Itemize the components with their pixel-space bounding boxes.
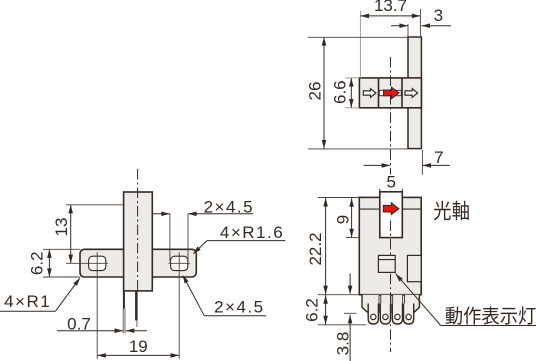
- dim 26 ext bottom: [308, 148, 408, 150]
- svg-text:5: 5: [386, 173, 395, 192]
- side view slot tab: [380, 192, 403, 238]
- pin base block: [362, 295, 419, 312]
- svg-text:19: 19: [129, 337, 148, 356]
- svg-text:9: 9: [333, 215, 352, 224]
- front pin right: [135, 291, 138, 321]
- dim 6.2 ext bottom: [318, 324, 367, 326]
- dim 19: [97, 354, 179, 356]
- svg-text:4×R1: 4×R1: [4, 292, 51, 311]
- dim 6.6 ext top: [345, 77, 359, 79]
- dim 3.8 upper arrow: [349, 274, 351, 294]
- hole center line left / 19 ext: [96, 252, 98, 359]
- pin shoulder circles: [371, 314, 376, 319]
- leader 4xR1: [0, 310, 55, 312]
- front pin left thin lines: [122, 309, 124, 334]
- top view center line: [390, 57, 392, 175]
- front mounting hole right: [171, 256, 188, 270]
- side view body: [359, 197, 421, 294]
- dim 13: [70, 205, 72, 263]
- front view flange: [80, 249, 196, 277]
- svg-text:2×4.5: 2×4.5: [204, 198, 255, 217]
- side view center line lower: [390, 274, 392, 352]
- dim 6.6: [350, 78, 352, 108]
- dim 0.7: [57, 330, 123, 332]
- svg-text:7: 7: [434, 148, 443, 167]
- dim 13 ext: [66, 204, 124, 206]
- side view red optical axis arrow: [383, 203, 399, 215]
- svg-text:13: 13: [52, 218, 71, 237]
- dim 13.7 ext left: [359, 11, 361, 78]
- dim 3 ext: [407, 24, 409, 37]
- hole center line right / 19 ext: [178, 252, 180, 359]
- svg-text:13.7: 13.7: [374, 0, 407, 15]
- label kousiku (optical axis): [434, 201, 451, 221]
- top view bar divider right: [401, 79, 403, 108]
- dim 22.2: [325, 198, 327, 294]
- dim 2x4.5 ext: [169, 214, 171, 262]
- dim 7: [364, 164, 391, 166]
- side notch rectangle: [407, 255, 421, 281]
- front view center line: [137, 169, 139, 291]
- dim 26 ext top: [308, 36, 408, 38]
- svg-text:22.2: 22.2: [306, 232, 325, 265]
- dim 6.2 ext top: [43, 248, 81, 250]
- indicator LED square: [378, 255, 395, 272]
- svg-text:4×R1.6: 4×R1.6: [220, 223, 284, 242]
- top view horizontal bar (13.7mm arm): [359, 78, 421, 108]
- dim 3.8 tick: [344, 312, 356, 314]
- dim 7 ext right: [421, 150, 423, 175]
- dim 13.7: [360, 15, 420, 17]
- dim 22.2 ext top: [318, 197, 360, 199]
- dim 6.2 front: [48, 249, 50, 277]
- dim 22.2 ext bottom: [318, 294, 360, 296]
- svg-text:0.7: 0.7: [67, 315, 91, 334]
- top view vertical strip (3mm plate): [408, 37, 421, 149]
- dim 13.7 ext right: [419, 9, 421, 37]
- svg-text:2×4.5: 2×4.5: [214, 298, 265, 317]
- hole cross horizontal right: [169, 262, 190, 264]
- front pin right thin line: [136, 320, 138, 327]
- top view bar divider left: [378, 79, 380, 108]
- dim 26: [323, 37, 325, 149]
- leader 2x4.5 bottom: [204, 315, 266, 317]
- pin gap slits: [379, 295, 381, 312]
- dim 6.2 ext bottom: [43, 276, 81, 278]
- label dousahyoujitou (operation indicator): [446, 307, 462, 325]
- top view receiver white arrow: [405, 89, 418, 98]
- front pin left: [123, 291, 125, 309]
- top view optical channel: [379, 90, 401, 95]
- side view slot hidden line left: [360, 208, 380, 210]
- dim 6.6 ext bottom: [345, 107, 359, 109]
- dim 3.8: [349, 315, 351, 361]
- dim 2x4.5 top: [152, 213, 170, 215]
- leader for indicator: [396, 274, 441, 326]
- dim 9 ext: [346, 237, 360, 239]
- front view center post: [124, 192, 153, 291]
- front mounting hole left: [89, 256, 106, 270]
- top view red optical axis arrow: [384, 87, 400, 98]
- terminal pins: [368, 304, 378, 325]
- hole cross horizontal left: [66, 262, 108, 264]
- svg-text:6.6: 6.6: [330, 80, 349, 104]
- svg-text:3.8: 3.8: [333, 332, 352, 356]
- side view center line upper: [390, 221, 392, 256]
- side view slot hidden line right: [402, 208, 420, 210]
- dim 3: [391, 25, 408, 27]
- dim 6.2 side: [325, 295, 327, 324]
- leader 4xR1.6: [207, 240, 285, 242]
- svg-text:26: 26: [306, 82, 325, 101]
- dim 5 ticks: [379, 189, 381, 195]
- svg-text:3: 3: [434, 6, 443, 25]
- svg-text:6.2: 6.2: [27, 251, 46, 275]
- top view emitter white arrow: [363, 89, 376, 98]
- dim 9: [351, 198, 353, 237]
- svg-text:6.2: 6.2: [302, 298, 321, 322]
